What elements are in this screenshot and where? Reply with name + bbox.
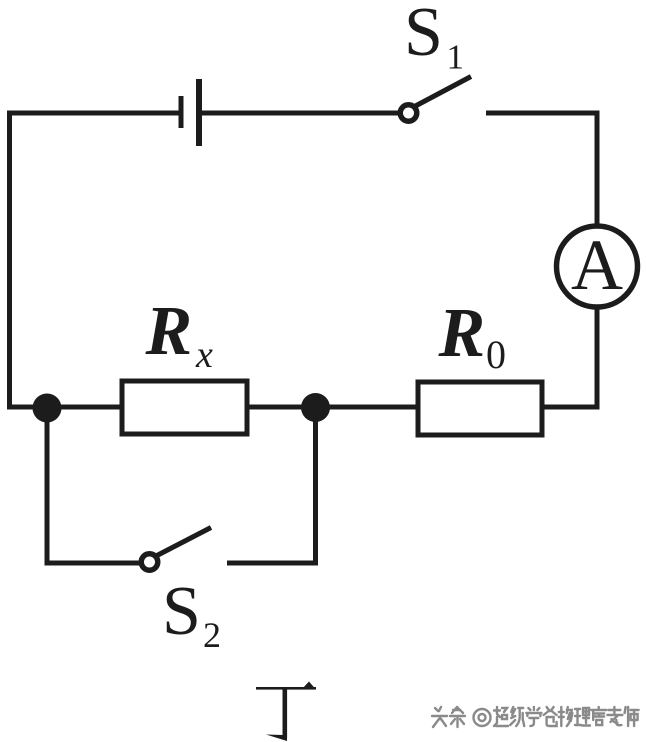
wire node A down + bottom-left to S2 xyxy=(47,407,141,563)
wire R0 to Rx (through node B) xyxy=(247,405,418,410)
wire battery to switch S1 xyxy=(199,111,398,116)
node A (left junction) xyxy=(33,394,62,423)
svg-text:x: x xyxy=(195,334,213,376)
svg-text:2: 2 xyxy=(203,615,221,655)
ammeter A xyxy=(557,225,638,307)
resistor R0 xyxy=(418,382,542,435)
switch S2 xyxy=(141,528,211,571)
svg-text:1: 1 xyxy=(447,37,465,76)
switch S1 xyxy=(400,77,471,122)
figure label 丁 xyxy=(256,682,316,742)
wire top-left + left vertical + middle-left xyxy=(10,113,182,407)
svg-text:S: S xyxy=(162,573,201,650)
resistor Rx xyxy=(122,381,247,434)
node B (right junction) xyxy=(301,393,330,422)
battery xyxy=(181,79,199,146)
svg-text:R: R xyxy=(438,295,486,372)
wire ammeter to R0 xyxy=(542,307,597,407)
wire S1 to top-right corner + right vertical to ammeter xyxy=(486,113,597,226)
svg-text:A: A xyxy=(571,225,623,305)
svg-text:0: 0 xyxy=(486,332,506,377)
svg-text:S: S xyxy=(404,0,443,71)
wire S2 to node B vertical xyxy=(227,407,316,563)
svg-text:R: R xyxy=(145,293,193,370)
